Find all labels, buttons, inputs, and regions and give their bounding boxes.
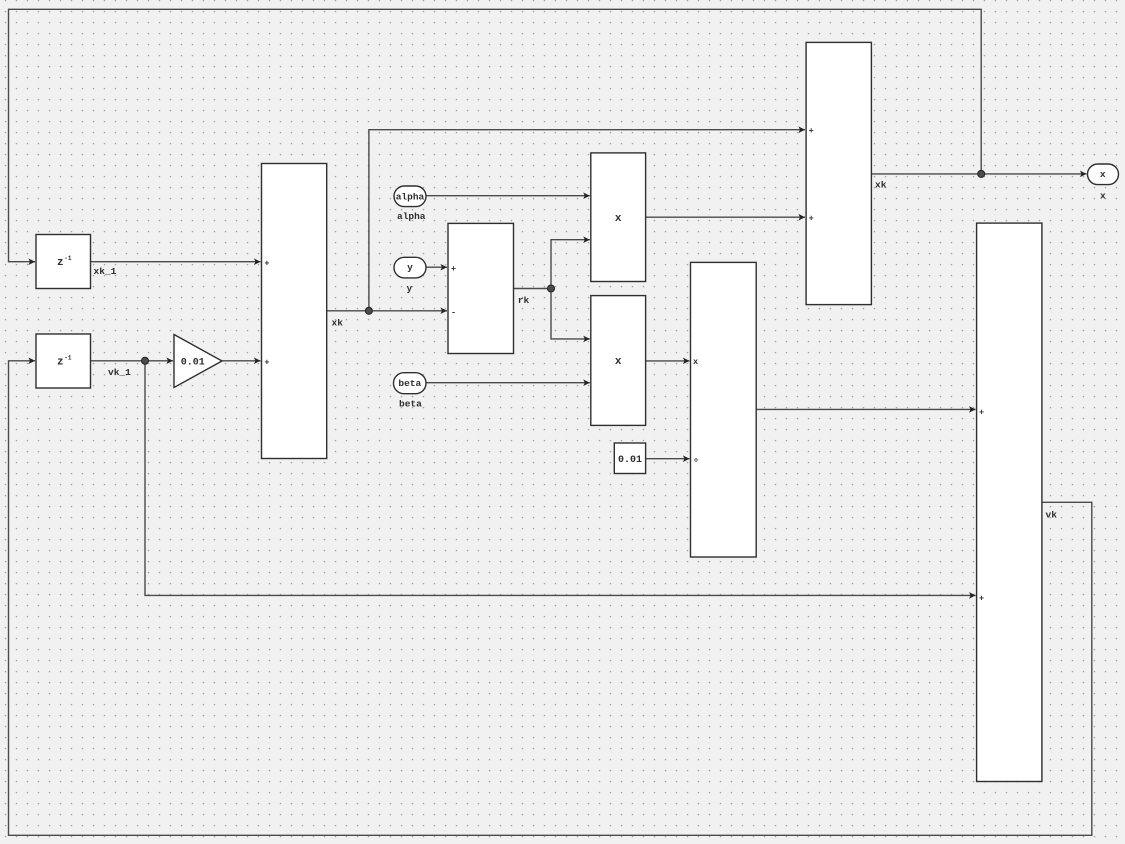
wire node xk up to xk sum [369, 130, 805, 311]
svg-text:y: y [407, 283, 413, 294]
svg-text:+: + [264, 357, 269, 367]
svg-text:xk_1: xk_1 [94, 266, 117, 277]
svg-text:x: x [1100, 169, 1106, 180]
junction node vk_1 [142, 357, 149, 364]
svg-text:+: + [979, 408, 984, 418]
constant 0.01 [614, 443, 645, 474]
svg-text:y: y [407, 262, 413, 273]
wire alpha to product1 [426, 195, 590, 197]
product2 block [591, 296, 646, 426]
wire node rk up to product1 [551, 240, 590, 289]
junction node xk [365, 307, 372, 314]
wire divide output to vk sum [756, 408, 975, 410]
unit delay xk_1 [36, 235, 117, 289]
product1 block [591, 153, 646, 282]
svg-text:0.01: 0.01 [618, 455, 642, 466]
svg-text:z: z [57, 356, 64, 368]
wire node xk to subtract minus [369, 310, 447, 312]
outport x [1088, 164, 1119, 201]
svg-text:+: + [979, 594, 984, 604]
svg-text:-1: -1 [64, 255, 72, 262]
wire node vk_1 down to vk sum [145, 361, 976, 596]
subtract block [448, 223, 530, 353]
wire beta to product2 [426, 382, 590, 384]
svg-text:vk_1: vk_1 [108, 367, 131, 378]
svg-text:x: x [1100, 190, 1106, 201]
junction node rk [548, 285, 555, 292]
wire y outport to subtract plus [426, 266, 447, 268]
inport alpha [394, 186, 426, 222]
svg-text:+: + [264, 258, 269, 268]
wire vk_1 output to gain [91, 360, 174, 362]
svg-text:xk: xk [332, 317, 344, 328]
divide block [691, 262, 757, 557]
sum1 block [262, 164, 344, 459]
wire subtract output to node rk [514, 288, 552, 290]
inport beta [394, 373, 427, 410]
vk sum block [977, 223, 1058, 781]
svg-text:beta: beta [398, 378, 421, 389]
wire node rk down to product2 [551, 289, 590, 339]
svg-text:x: x [615, 213, 622, 225]
svg-text:0.01: 0.01 [181, 357, 205, 368]
inport y [394, 257, 426, 294]
svg-text:+: + [809, 126, 814, 136]
svg-text:alpha: alpha [397, 211, 426, 222]
wire constant 0.01 to divide [646, 458, 690, 460]
svg-text:÷: ÷ [693, 456, 698, 466]
xk sum block [806, 42, 887, 304]
svg-text:+: + [451, 264, 456, 274]
svg-text:alpha: alpha [396, 192, 425, 203]
unit delay vk_1 [36, 334, 131, 388]
svg-text:rk: rk [518, 295, 530, 306]
svg-text:+: + [809, 214, 814, 224]
wire xk_1 output to sum1 [91, 261, 261, 263]
wire xk feedback loop (top/left) [9, 9, 982, 261]
junction node xk output [978, 170, 985, 177]
wire product1 output to xk sum [646, 216, 805, 218]
wire product2 output to divide [646, 360, 690, 362]
gain 0.01 [174, 335, 222, 388]
svg-text:-: - [451, 307, 456, 317]
svg-text:vk: vk [1046, 509, 1058, 520]
wire xk sum output to x outport [871, 173, 1086, 175]
wire gain output to sum1 [222, 360, 261, 362]
svg-text:-1: -1 [64, 354, 72, 361]
wire vk feedback loop (right/bottom/left) [9, 361, 1092, 836]
svg-text:beta: beta [399, 399, 422, 410]
wire sum1 output to node xk [327, 310, 370, 312]
svg-text:x: x [615, 356, 622, 368]
svg-text:xk: xk [875, 180, 887, 191]
svg-text:z: z [57, 257, 64, 269]
svg-text:x: x [693, 357, 698, 367]
